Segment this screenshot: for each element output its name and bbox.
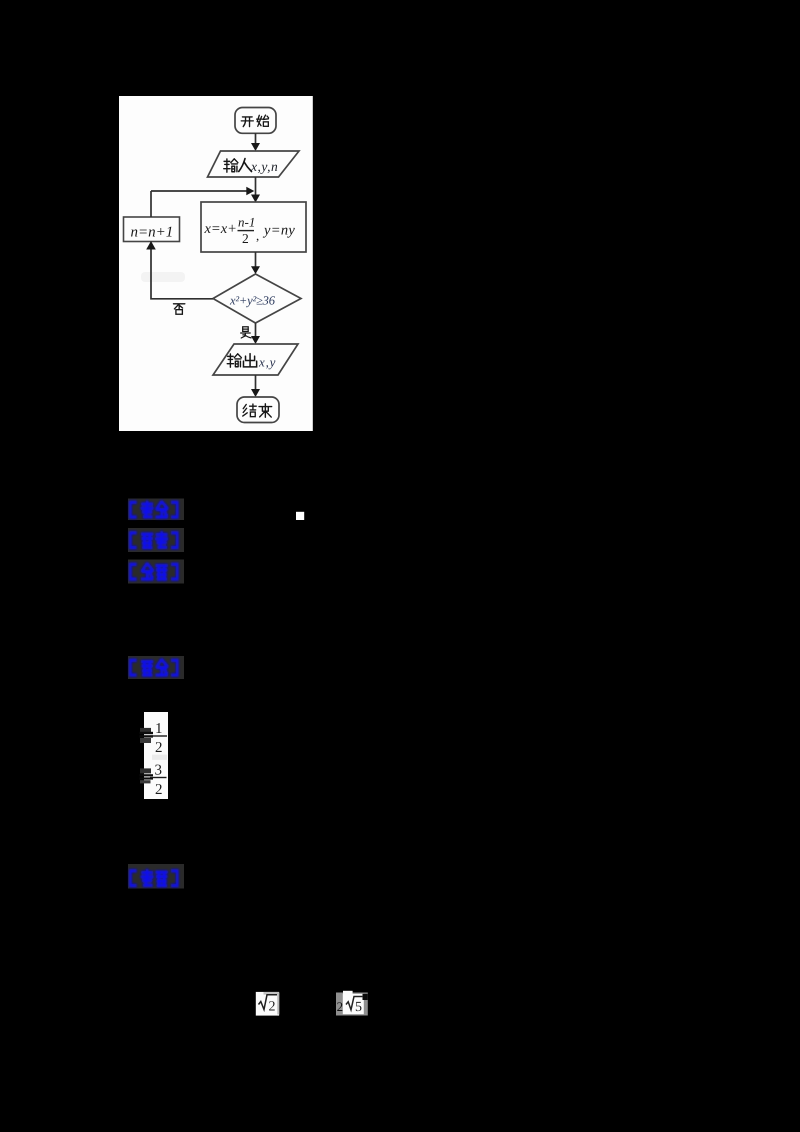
- svg-text:x=x+: x=x+: [204, 221, 237, 237]
- wire start to input: [255, 133, 257, 145]
- svg-text:2: 2: [337, 999, 344, 1014]
- wire input to process with junction: [255, 177, 257, 195]
- start terminal box: [235, 108, 276, 134]
- svg-text:5: 5: [355, 1000, 362, 1015]
- label kaodian blue text: [130, 502, 177, 518]
- wire output to end: [255, 375, 257, 391]
- svg-text:x,y,n: x,y,n: [250, 159, 278, 174]
- no branch wire: [151, 246, 213, 299]
- n=n+1 box: [124, 217, 180, 242]
- fraction 1/2: [151, 721, 168, 756]
- svg-text:y=ny: y=ny: [262, 223, 295, 239]
- equals sign 2: [140, 768, 151, 773]
- svg-text:,: ,: [256, 228, 259, 243]
- fraction 3/2: [150, 763, 167, 799]
- svg-text:x²+y²≥36: x²+y²≥36: [229, 294, 276, 308]
- label dianping highlight: [128, 864, 184, 889]
- label jieda highlight: [128, 656, 184, 679]
- faint erased-text smudge: [141, 272, 185, 282]
- label zhuanti highlight: [128, 528, 184, 552]
- small white square formula blob: [296, 512, 304, 520]
- process rect: [201, 202, 306, 252]
- input parallelogram: [208, 151, 300, 177]
- sqrt5 formula box: [336, 991, 368, 1016]
- svg-text:n=n+1: n=n+1: [131, 225, 174, 241]
- svg-text:2: 2: [155, 782, 163, 798]
- fraction formula white box: [144, 712, 168, 799]
- yes label: [241, 327, 251, 338]
- label fenxi highlight: [128, 560, 184, 584]
- label zhuanti blue text: [130, 532, 177, 548]
- label kaodian highlight: [128, 499, 184, 521]
- label jieda blue text: [130, 660, 177, 675]
- svg-text:2: 2: [242, 231, 249, 246]
- no label: [173, 304, 184, 314]
- svg-text:x,y: x,y: [258, 355, 276, 370]
- wire process to decision: [255, 252, 257, 268]
- svg-text:1: 1: [155, 721, 163, 737]
- decision diamond: [213, 274, 301, 323]
- output parallelogram: [213, 344, 298, 375]
- svg-text:3: 3: [155, 763, 163, 779]
- equals sign 1: [140, 728, 151, 732]
- wire decision to output: [255, 323, 257, 338]
- end terminal box: [237, 397, 279, 423]
- label dianping blue text: [130, 870, 177, 886]
- sqrt2 formula box: [256, 992, 279, 1016]
- svg-text:2: 2: [269, 1000, 276, 1015]
- svg-text:n-1: n-1: [238, 215, 255, 230]
- label fenxi blue text: [130, 564, 177, 579]
- wire n+1 top up and right to junction: [150, 191, 152, 217]
- flowchart panel: [119, 96, 313, 431]
- faint band between fractions: [152, 755, 167, 760]
- svg-text:2: 2: [155, 740, 163, 756]
